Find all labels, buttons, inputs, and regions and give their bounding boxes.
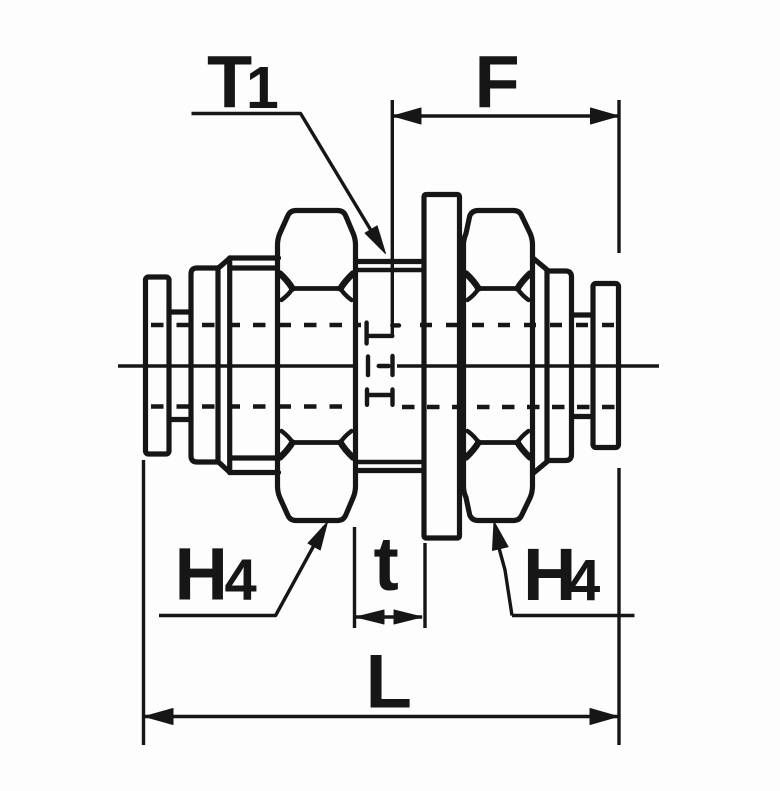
left cap to washer chamfer bottom bbox=[219, 463, 230, 473]
left washer top edge bbox=[230, 255, 279, 260]
left washer bottom edge bbox=[230, 470, 279, 475]
H4 right leader underline bbox=[499, 548, 512, 616]
center threaded body bottom inner bbox=[356, 460, 423, 464]
thread depth tick upper bbox=[364, 323, 368, 344]
hex nut right facet line lower bbox=[478, 440, 519, 445]
t dimension line bbox=[356, 615, 422, 618]
hidden line upper right run bbox=[420, 323, 616, 327]
body line behind washer top bbox=[231, 265, 277, 270]
left release button bbox=[146, 277, 170, 454]
left washer left edge bbox=[227, 258, 232, 473]
centerline bbox=[118, 364, 659, 367]
F arrow left bbox=[393, 108, 421, 124]
right collar step bbox=[572, 315, 594, 417]
centerline short dash bbox=[379, 364, 389, 368]
nut to cap chamfer top bbox=[534, 259, 549, 272]
T1 leader underline bbox=[192, 114, 382, 248]
hex nut left facet line lower bbox=[292, 440, 342, 445]
svg-text:F: F bbox=[475, 41, 520, 124]
centerline tick left bbox=[366, 357, 370, 376]
hex nut left outline bbox=[278, 211, 356, 521]
centerline tick right bbox=[390, 356, 394, 375]
hidden line lower left run bbox=[151, 404, 357, 408]
H4 left leader underline bbox=[159, 527, 324, 616]
H4 right leader arrow bbox=[493, 522, 509, 551]
hex nut right facet line upper bbox=[478, 286, 519, 291]
F arrow right bbox=[591, 108, 619, 124]
t arrow right bbox=[394, 610, 422, 624]
thread depth H mark lower bbox=[367, 390, 393, 405]
H4 left leader arrow bbox=[308, 522, 328, 550]
L arrow left bbox=[145, 709, 174, 725]
left collar step bbox=[169, 312, 191, 420]
svg-text:t: t bbox=[374, 522, 399, 607]
hex nut right outline bbox=[464, 211, 533, 521]
svg-text:4: 4 bbox=[568, 548, 600, 613]
nut to cap chamfer bottom bbox=[534, 461, 549, 474]
H4 right underline bbox=[512, 614, 635, 617]
t extension line left bbox=[353, 527, 356, 628]
hex nut right facet wedges bbox=[466, 274, 530, 458]
hidden line lower right run bbox=[402, 405, 616, 409]
left cap to washer chamfer top bbox=[219, 258, 230, 268]
hex nut left facet wedges bbox=[280, 274, 353, 458]
F/L extension line right lower bbox=[617, 468, 620, 745]
right cap left edge bbox=[544, 271, 549, 461]
bulkhead panel bbox=[424, 195, 460, 539]
L extension line left bbox=[142, 460, 145, 745]
L arrow right bbox=[590, 709, 618, 725]
right cap body bbox=[547, 271, 572, 461]
F extension line right upper bbox=[617, 100, 620, 253]
center threaded body bottom outer bbox=[356, 468, 423, 473]
svg-text:1: 1 bbox=[246, 55, 279, 121]
svg-text:L: L bbox=[366, 640, 412, 725]
t arrow left bbox=[356, 610, 384, 624]
svg-text:H: H bbox=[175, 533, 228, 616]
right release button bbox=[593, 284, 619, 448]
thread nub right of extension bbox=[392, 323, 399, 327]
svg-text:4: 4 bbox=[225, 548, 257, 613]
T1 leader arrow bbox=[365, 226, 385, 254]
F dimension line bbox=[392, 114, 619, 117]
t extension line right bbox=[423, 543, 426, 628]
center threaded body top inner bbox=[356, 268, 423, 272]
center threaded body top outer bbox=[356, 259, 423, 264]
body line behind washer bottom bbox=[231, 455, 277, 460]
hex nut left facet line upper bbox=[292, 286, 342, 291]
left cap right edge bbox=[215, 268, 220, 462]
thread depth bracket bar bbox=[367, 334, 393, 338]
left cap body bbox=[191, 268, 218, 462]
L dimension line bbox=[144, 715, 620, 718]
hidden line upper left run bbox=[151, 323, 361, 327]
F extension line left (into thread bracket) bbox=[391, 100, 394, 336]
